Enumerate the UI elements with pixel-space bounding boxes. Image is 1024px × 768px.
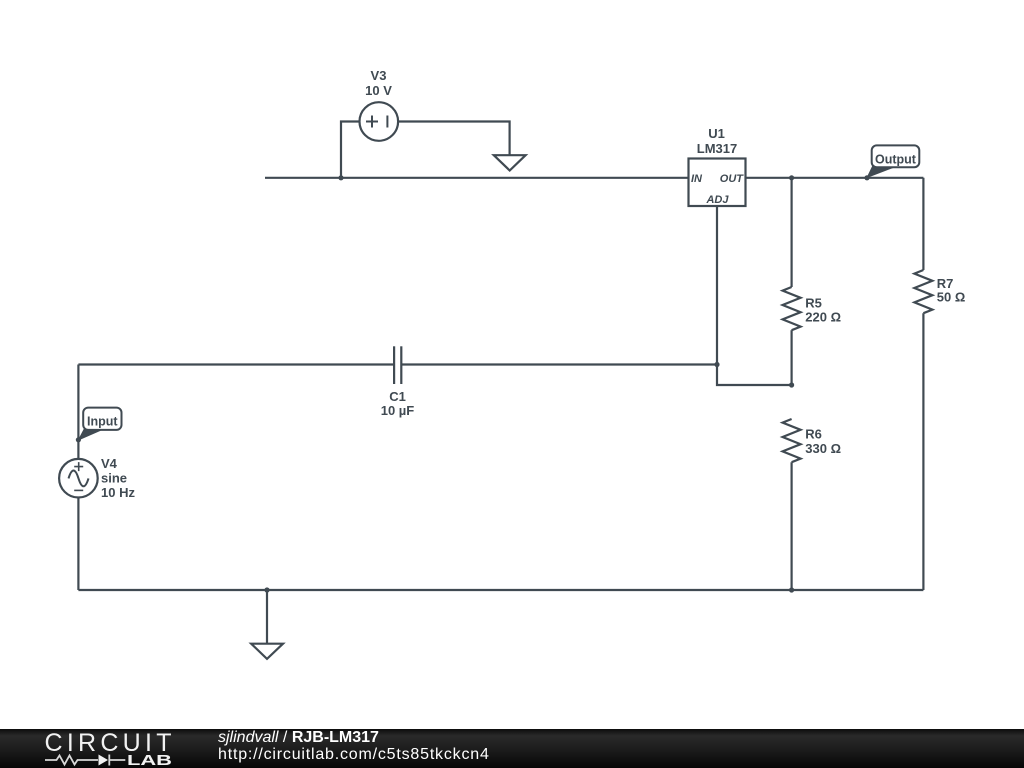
label C1 value — [381, 389, 415, 418]
wire: right rail above R7 — [922, 178, 924, 270]
svg-text:LM317: LM317 — [697, 141, 737, 156]
label V4 value — [101, 456, 135, 500]
svg-text:V4: V4 — [101, 456, 118, 471]
svg-text:10 µF: 10 µF — [381, 403, 415, 418]
CircuitLab logo — [0, 729, 200, 768]
voltage source V4 (sine) — [59, 459, 98, 498]
wire: C1 right horizontal to ADJ node — [401, 363, 717, 365]
node Input flag — [79, 408, 122, 440]
label R5 value — [805, 296, 841, 325]
ground (bottom) — [251, 644, 283, 659]
label V3 value — [365, 68, 392, 98]
wire: U1 OUT to right rail — [746, 177, 924, 179]
wire: R5 bottom lead to adj node — [790, 330, 792, 385]
svg-text:OUT: OUT — [720, 173, 745, 185]
node: V3 tap on bus — [338, 175, 343, 180]
resistor R6 — [783, 419, 801, 462]
label R7 value — [937, 276, 966, 305]
label U1 — [697, 126, 737, 156]
credit text — [218, 729, 490, 763]
svg-text:R5: R5 — [805, 296, 822, 311]
svg-text:C1: C1 — [389, 389, 406, 404]
svg-text:U1: U1 — [708, 126, 725, 141]
footer bar — [0, 729, 1024, 768]
wire: ADJ node down and right to R5/R6 node — [717, 365, 792, 386]
svg-text:IN: IN — [691, 173, 703, 185]
node: output tap — [864, 175, 869, 180]
op-amp U1 LM317 box — [689, 159, 746, 207]
svg-text:ADJ: ADJ — [705, 194, 729, 206]
node: R5 top — [789, 175, 794, 180]
svg-text:R6: R6 — [805, 427, 822, 442]
node: R6 bottom — [789, 587, 794, 592]
wire: U1 ADJ pin down — [716, 206, 718, 365]
svg-text:V3: V3 — [371, 68, 387, 83]
svg-text:Input: Input — [87, 415, 118, 429]
svg-text:220 Ω: 220 Ω — [805, 309, 841, 324]
wire: R5 top lead from out bus — [790, 178, 792, 287]
svg-text:sine: sine — [101, 471, 127, 486]
resistor R5 — [783, 287, 801, 330]
node: ADJ/C1 — [714, 362, 719, 367]
wire: bottom bus — [78, 589, 923, 591]
wire: V3 left lead down to bus — [341, 122, 360, 178]
wire: V4 bottom lead — [77, 498, 79, 591]
wire: right rail below R7 — [922, 313, 924, 590]
voltage source V3 — [360, 102, 399, 141]
label R6 value — [805, 427, 841, 457]
node Output flag — [867, 145, 919, 177]
capacitor C1 — [394, 346, 401, 384]
wire: V3 right lead to ground — [398, 122, 510, 156]
wire: R6 bottom lead to bottom bus — [790, 462, 792, 590]
svg-text:LAB: LAB — [127, 753, 172, 768]
svg-text:330 Ω: 330 Ω — [805, 441, 841, 456]
svg-text:50 Ω: 50 Ω — [937, 290, 966, 305]
wire: C1 left horizontal — [78, 363, 394, 365]
svg-text:10 Hz: 10 Hz — [101, 485, 135, 500]
ground (top, V3) — [494, 155, 526, 170]
wire: top input bus to U1 IN — [265, 177, 689, 179]
svg-text:10 V: 10 V — [365, 83, 392, 98]
resistor R7 — [914, 270, 932, 313]
node: bottom ground tap — [264, 587, 269, 592]
node: R5/R6 — [789, 382, 794, 387]
pin labels IN OUT ADJ — [691, 173, 744, 206]
svg-text:Output: Output — [875, 153, 917, 167]
node: input tap — [76, 437, 81, 442]
wire: bottom ground lead — [266, 590, 268, 644]
wire: left rail from C1 wire to V4 — [77, 365, 79, 460]
